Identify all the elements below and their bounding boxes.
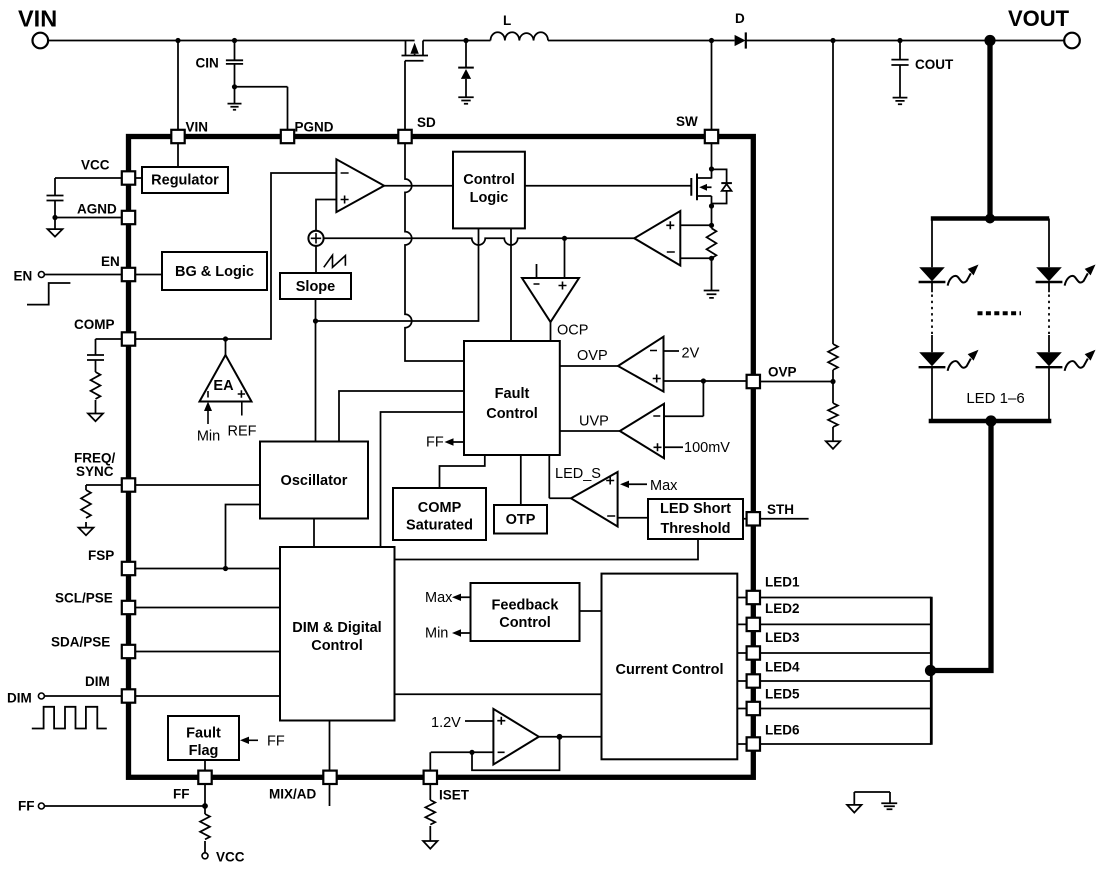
svg-text:LED_S: LED_S: [555, 466, 601, 482]
svg-text:D: D: [735, 11, 745, 26]
svg-text:Min: Min: [425, 626, 448, 642]
svg-text:COUT: COUT: [915, 57, 954, 72]
svg-text:Max: Max: [650, 478, 678, 494]
svg-text:FF: FF: [426, 435, 444, 451]
svg-text:LED5: LED5: [765, 687, 800, 702]
svg-text:FSP: FSP: [88, 548, 114, 563]
svg-text:VIN: VIN: [186, 120, 209, 135]
svg-text:DIM & Digital: DIM & Digital: [292, 620, 381, 636]
svg-text:Threshold: Threshold: [660, 521, 730, 537]
svg-text:PGND: PGND: [295, 120, 334, 135]
svg-text:Saturated: Saturated: [406, 518, 473, 534]
svg-text:MIX/AD: MIX/AD: [269, 787, 317, 802]
svg-text:Control: Control: [499, 615, 551, 631]
svg-text:Fault: Fault: [186, 726, 221, 742]
svg-text:UVP: UVP: [579, 414, 609, 430]
svg-text:Control: Control: [311, 638, 363, 654]
svg-text:SYNC: SYNC: [76, 464, 114, 479]
svg-text:FF: FF: [267, 734, 285, 750]
svg-text:ISET: ISET: [439, 788, 470, 803]
svg-text:REF: REF: [228, 424, 257, 440]
svg-text:EN: EN: [101, 254, 120, 269]
svg-text:SDA/PSE: SDA/PSE: [51, 635, 110, 650]
svg-text:LED2: LED2: [765, 601, 800, 616]
svg-text:VCC: VCC: [216, 850, 245, 865]
svg-text:LED6: LED6: [765, 723, 800, 738]
svg-text:LED1: LED1: [765, 575, 800, 590]
svg-text:COMP: COMP: [74, 317, 115, 332]
svg-text:Min: Min: [197, 429, 220, 445]
svg-text:SCL/PSE: SCL/PSE: [55, 591, 113, 606]
svg-text:LED3: LED3: [765, 630, 800, 645]
svg-text:Fault: Fault: [495, 386, 530, 402]
svg-text:L: L: [503, 13, 511, 28]
svg-text:Flag: Flag: [189, 743, 219, 759]
svg-text:EN: EN: [14, 269, 33, 284]
svg-text:VCC: VCC: [81, 158, 110, 173]
svg-text:Max: Max: [425, 590, 453, 606]
svg-text:AGND: AGND: [77, 202, 117, 217]
svg-text:BG & Logic: BG & Logic: [175, 264, 254, 280]
svg-text:FF: FF: [18, 799, 35, 814]
svg-text:Slope: Slope: [296, 279, 335, 295]
svg-text:VIN: VIN: [18, 6, 57, 32]
svg-text:STH: STH: [767, 502, 794, 517]
svg-text:Control: Control: [463, 172, 515, 188]
svg-text:Regulator: Regulator: [151, 173, 219, 189]
svg-text:DIM: DIM: [7, 691, 32, 706]
svg-text:LED4: LED4: [765, 660, 800, 675]
svg-text:OVP: OVP: [577, 348, 608, 364]
svg-text:LED 1–6: LED 1–6: [966, 390, 1024, 407]
svg-text:Control: Control: [486, 406, 538, 422]
svg-text:2V: 2V: [682, 346, 700, 362]
svg-text:100mV: 100mV: [684, 440, 730, 456]
svg-text:Feedback: Feedback: [492, 598, 560, 614]
svg-text:Logic: Logic: [470, 190, 509, 206]
svg-text:DIM: DIM: [85, 674, 110, 689]
svg-text:COMP: COMP: [418, 500, 462, 516]
svg-text:1.2V: 1.2V: [431, 715, 461, 731]
svg-text:Current Control: Current Control: [616, 662, 724, 678]
svg-text:Oscillator: Oscillator: [281, 473, 348, 489]
svg-text:OTP: OTP: [506, 512, 536, 528]
svg-text:SW: SW: [676, 114, 698, 129]
svg-text:FF: FF: [173, 787, 190, 802]
svg-text:CIN: CIN: [196, 56, 219, 71]
svg-text:VOUT: VOUT: [1008, 6, 1070, 31]
svg-text:EA: EA: [213, 378, 234, 394]
svg-text:LED Short: LED Short: [660, 501, 731, 517]
svg-text:OCP: OCP: [557, 323, 588, 339]
svg-text:SD: SD: [417, 115, 436, 130]
svg-text:OVP: OVP: [768, 365, 797, 380]
